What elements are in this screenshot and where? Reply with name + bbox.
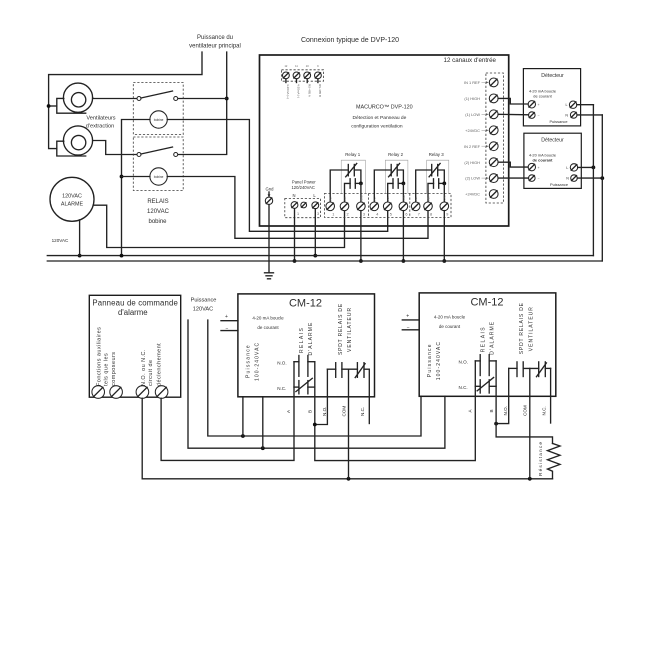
node: junction switch1 right (225, 97, 229, 101)
terminal 3 (357, 202, 366, 211)
wire: SPDT risers (508, 368, 510, 396)
terminal AP-3 (136, 386, 149, 399)
wire: 120VAC supply left leg to CM boxes power (neutral) (188, 320, 445, 448)
wire: strip IN3 to D1 - (498, 113, 528, 116)
svg-text:N.O.: N.O. (503, 406, 508, 415)
svg-text:Détection et Panneau de: Détection et Panneau de (353, 115, 407, 121)
svg-text:CM-12: CM-12 (470, 297, 503, 309)
svg-text:ALARME: ALARME (61, 202, 84, 208)
terminal 5 (383, 202, 392, 211)
wire: upper supply bus (47, 255, 593, 257)
terminal IN6 + label (2) HIGH (464, 158, 498, 167)
wire: lower supply bus (47, 260, 602, 262)
terminal 7 (411, 202, 420, 211)
wire: CM2 NC stub (550, 396, 552, 423)
svg-text:Connexion typique de DVP-120: Connexion typique de DVP-120 (301, 37, 399, 44)
wire: alarm bottom to upper bus (79, 220, 81, 256)
svg-text:bobine: bobine (148, 219, 167, 225)
svg-text:2: 2 (347, 213, 349, 217)
terminal AP-2 (110, 386, 123, 399)
wire: switch1 right to vertical (176, 98, 227, 100)
terminal TB1-1 (283, 72, 290, 79)
terminal D2 + (528, 163, 540, 170)
terminal 8 (424, 202, 433, 211)
wire: CM1 NO jog to B (315, 397, 328, 425)
terminal D2 N (566, 175, 577, 182)
terminal PP-mid (301, 202, 307, 208)
alarm control panel box (89, 295, 180, 397)
terminal D1 - (529, 112, 540, 119)
wire: fan2 to switch2 (93, 141, 137, 155)
svg-text:N.C.: N.C. (360, 407, 365, 416)
coil bobine2 (150, 168, 167, 185)
detector D2 box (524, 133, 581, 188)
svg-text:bobine: bobine (154, 118, 164, 122)
svg-text:N.O.: N.O. (277, 360, 286, 365)
terminal CM2 - lead (402, 329, 419, 331)
terminal AP-1 (92, 386, 105, 399)
svg-text:Relay 3: Relay 3 (429, 152, 444, 157)
wire: CM2 COM down to trigger loop (529, 396, 531, 479)
wire: right vertical N feed (601, 115, 603, 261)
terminal AP-4 (155, 386, 168, 399)
switch S1 (relay K1 contact) (137, 91, 178, 101)
relay group Relay 3 (411, 152, 448, 263)
node: N on lower bus (293, 259, 297, 263)
wire: CM1 COM down to trigger loop (348, 397, 350, 479)
wire: bobine1 right to relay2 NO terminal (167, 120, 387, 232)
node: bobine common on upper bus (120, 254, 124, 258)
svg-text:N: N (292, 193, 295, 198)
svg-text:4: 4 (376, 213, 378, 217)
node: CM2 NO-B junction (494, 422, 498, 426)
alarm relay NC contact (475, 385, 480, 387)
wire: alarm panel t3 along bottom (trigger loop) (142, 398, 552, 479)
svg-text:1: 1 (297, 212, 299, 216)
terminal 1 (326, 202, 335, 211)
node: junction bobine2 left (120, 175, 124, 179)
svg-text:RELAIS: RELAIS (147, 199, 168, 205)
terminal IN7 + label (2) LOW (465, 174, 498, 183)
svg-text:IN 1 REF: IN 1 REF (464, 80, 481, 85)
svg-text:COM: COM (443, 195, 447, 203)
wire: alarm side to relay1 NO terminal (93, 205, 344, 247)
svg-text:N.C.: N.C. (541, 406, 546, 415)
node: CM1 power hot tap (241, 434, 245, 438)
input terminals IN1..IN8 (464, 78, 498, 198)
svg-text:Résistance: Résistance (538, 441, 544, 476)
SECTION: buses (47, 105, 602, 261)
relay contact box K1 (dashed) (133, 83, 183, 135)
svg-text:L: L (566, 103, 568, 107)
node: CM2 COM on trigger loop (528, 477, 532, 481)
terminal D2 L (566, 164, 577, 171)
svg-text:+: + (406, 313, 409, 319)
svg-text:D'ALARME: D'ALARME (308, 322, 314, 356)
terminal block TB1 (top-left, dashed) (282, 70, 324, 81)
wire: relay3 COM to lower bus (443, 211, 445, 261)
svg-text:−: − (538, 177, 540, 181)
svg-text:120VAC: 120VAC (193, 307, 213, 313)
terminal D1 N (565, 112, 577, 119)
terminal IN1 + label IN 1 REF (464, 78, 498, 87)
svg-text:COM: COM (359, 195, 363, 203)
relay contact box K2 (dashed) (133, 137, 183, 191)
wire: D2 N to right vertical (577, 177, 602, 179)
terminal TB1-3 (304, 72, 311, 79)
svg-text:+24VDC: +24VDC (465, 192, 480, 197)
wire: riser A (293, 362, 295, 397)
svg-text:+: + (225, 314, 228, 320)
CM-12 module 1 (221, 294, 375, 417)
wire: D1 N to right vertical (577, 114, 602, 116)
svg-text:(2) HIGH: (2) HIGH (464, 160, 480, 165)
terminal CM1 - lead (221, 330, 238, 332)
wire: CM1 power hot drop (242, 397, 244, 436)
svg-text:+: + (538, 103, 540, 107)
svg-text:N.C.: N.C. (277, 386, 286, 391)
relay1 NO contact (345, 183, 351, 203)
svg-text:Panneau de commande: Panneau de commande (92, 299, 178, 308)
relay3 NC contact (416, 170, 432, 203)
relay2 NC contact (374, 170, 391, 203)
terminal block panel power (dashed) (285, 199, 321, 218)
svg-text:5: 5 (390, 213, 392, 217)
svg-text:4-20mA (-): 4-20mA (-) (297, 84, 301, 98)
wire: Gnd to earth (268, 205, 270, 273)
wire: relay2 COM to terminal (402, 183, 404, 203)
svg-text:8: 8 (430, 213, 432, 217)
svg-text:Détecteur: Détecteur (541, 138, 564, 144)
wire: riser B (314, 362, 316, 397)
node: junction fan feed (47, 104, 51, 108)
relay1 NC contact (330, 170, 348, 203)
svg-text:VENTILATEUR: VENTILATEUR (528, 306, 534, 351)
fan B1 (blower, Ventilateurs d'extraction) (57, 83, 93, 113)
svg-text:Ventilateurs: Ventilateurs (86, 116, 115, 122)
TB1 terminal leg stubs (285, 79, 287, 83)
terminal PP-L (312, 202, 319, 209)
coil bobine1 (150, 111, 167, 128)
svg-text:120VAC: 120VAC (147, 209, 170, 215)
node: D2 L junction (592, 166, 596, 170)
resistor Resistance (end of line) (548, 443, 561, 478)
svg-text:4-20 mA boucle: 4-20 mA boucle (434, 315, 466, 320)
svg-text:B: B (489, 409, 494, 412)
wire: alarm panel t4 to CM1 terminal A (161, 397, 294, 461)
terminal 2 (340, 202, 349, 211)
SECTION: DVP-120 main box (260, 37, 509, 279)
input terminal strip (dashed) (486, 73, 504, 203)
node: CM1 power neutral tap (261, 446, 265, 450)
svg-text:120/240VAC: 120/240VAC (291, 185, 314, 190)
wire: bobine2 right to relay3 NO terminal (167, 177, 428, 239)
svg-text:−: − (226, 326, 229, 332)
svg-text:d'extraction: d'extraction (86, 124, 114, 130)
wire: D1 L to right vertical (577, 104, 594, 106)
terminal D2 - (529, 175, 540, 182)
wire: strip IN2 to D1 + (498, 98, 528, 104)
wire: riser B (495, 361, 497, 396)
svg-text:COM: COM (523, 405, 528, 416)
terminal TB1-2 (293, 72, 300, 79)
wire: fan1 to switch1 (93, 97, 137, 100)
node: relay1 COM junction (359, 182, 363, 186)
svg-text:Puissance: Puissance (550, 119, 568, 124)
box CM-12 #1 (238, 294, 375, 397)
svg-text:D'ALARME: D'ALARME (490, 321, 496, 355)
svg-text:de courant: de courant (257, 325, 279, 330)
svg-text:RS-485 B: RS-485 B (318, 84, 322, 97)
node: relay2 COM junction (402, 182, 406, 186)
node: CM1 NO-B junction (313, 423, 317, 427)
box CM-12 #2 (419, 293, 556, 396)
wire: relay1 COM to terminal (360, 183, 362, 203)
svg-text:Relay 2: Relay 2 (388, 152, 403, 157)
svg-text:de courant: de courant (533, 94, 552, 99)
SPDT fan relay contacts (509, 367, 517, 369)
svg-text:COM: COM (402, 195, 406, 203)
svg-text:circuit de: circuit de (148, 359, 154, 386)
terminal IN4 + label +24VDC (465, 126, 498, 135)
svg-text:tels que les: tels que les (104, 353, 110, 386)
wire: L to upper bus (314, 209, 316, 256)
svg-text:3: 3 (317, 212, 319, 216)
svg-text:SPDT RELAIS DE: SPDT RELAIS DE (338, 303, 344, 355)
relay groups (326, 152, 449, 263)
wire: relay3 COM to terminal (443, 183, 445, 203)
relay group Relay 1 (326, 152, 365, 263)
terminal D1 L (566, 101, 577, 108)
alarm relay NC contact (294, 386, 299, 388)
detector D1 box (523, 69, 580, 126)
svg-text:d'alarme: d'alarme (118, 308, 148, 317)
terminal 6 (399, 202, 408, 211)
terminal IN8 + label +24VDC (465, 190, 498, 199)
terminal IN2 + label (1) HIGH (464, 94, 498, 103)
svg-text:MACURCO™ DVP-120: MACURCO™ DVP-120 (356, 105, 413, 111)
svg-text:+: + (538, 166, 540, 170)
wire: fan1 feed stub (49, 105, 57, 107)
wire: 120VAC supply right leg to CM boxes power (hot) (208, 320, 421, 436)
svg-text:ventilateur principal: ventilateur principal (189, 44, 241, 50)
relay group Relay 2 (370, 152, 408, 263)
wire: strip IN7 to D2 - (498, 177, 528, 179)
svg-text:120VAC: 120VAC (52, 238, 69, 243)
svg-text:Gnd: Gnd (266, 187, 275, 192)
svg-text:N.O. ou N.C.: N.O. ou N.C. (141, 349, 147, 386)
terminal 9 (440, 202, 449, 211)
svg-text:Panel Power: Panel Power (292, 180, 316, 185)
node: CM1 COM on trigger loop (347, 477, 351, 481)
switch S2 (relay K2 contact) (137, 147, 178, 157)
fan B2 (blower) (57, 126, 93, 156)
svg-text:CM-12: CM-12 (289, 298, 322, 310)
terminal D1 + (528, 101, 540, 108)
node: L on upper bus (313, 254, 317, 258)
terminal CM1 + lead (221, 320, 238, 322)
terminal 4 (370, 202, 379, 211)
wire: relay2 COM to lower bus (402, 211, 404, 261)
relay2 NO contact (388, 183, 393, 203)
svg-text:N.O.: N.O. (459, 360, 468, 365)
svg-text:(2) LOW: (2) LOW (465, 176, 480, 181)
svg-text:de courant: de courant (439, 324, 461, 329)
svg-text:composeurs: composeurs (111, 352, 117, 386)
node: relay3 COM junction (442, 182, 446, 186)
box U1 DVP-120 (260, 55, 509, 226)
SECTION: top-left fans and relays (47, 35, 428, 258)
terminal CM2 + lead (402, 319, 419, 321)
svg-text:Relay 1: Relay 1 (345, 152, 360, 157)
svg-text:Puissance: Puissance (246, 344, 252, 378)
svg-text:configuration ventilation: configuration ventilation (351, 124, 403, 130)
wire: SPDT risers (326, 369, 328, 397)
svg-text:6: 6 (405, 213, 407, 217)
node: junction alarm on upper bus (78, 254, 82, 258)
svg-text:VENTILATEUR: VENTILATEUR (347, 307, 353, 352)
svg-text:B: B (308, 410, 313, 413)
svg-text:7: 7 (418, 213, 420, 217)
svg-text:Puissance: Puissance (191, 298, 217, 304)
SECTION: lower panels (89, 293, 560, 481)
wire: right vertical L feed (592, 105, 594, 256)
wire: CM1 NC stub (368, 397, 370, 424)
wire: relay1 COM to lower bus (360, 211, 362, 261)
CM-12 module 2 (402, 293, 556, 416)
svg-text:3: 3 (363, 213, 365, 217)
svg-text:1: 1 (332, 213, 334, 217)
svg-text:−: − (538, 114, 540, 118)
svg-text:IN 2 REF: IN 2 REF (464, 144, 481, 149)
node: D2 N junction (600, 176, 604, 180)
svg-text:120VAC: 120VAC (62, 194, 82, 200)
svg-text:12 canaux d'entrée: 12 canaux d'entrée (444, 57, 497, 64)
svg-text:RELAIS: RELAIS (299, 327, 305, 353)
SECTION: detectors (498, 69, 604, 189)
svg-text:RS-485 A: RS-485 A (307, 84, 311, 97)
svg-text:N.O.: N.O. (322, 407, 327, 416)
alarm source 120VAC ALARME (50, 177, 94, 221)
svg-text:RELAIS: RELAIS (480, 326, 486, 352)
svg-text:Détecteur: Détecteur (541, 73, 564, 79)
wire: strip IN6 to D2 + (498, 162, 528, 167)
wire: bobine2 left stub (122, 176, 150, 178)
wire: riser A (474, 361, 476, 396)
terminal TB1-4 (315, 72, 322, 79)
SPDT fan relay contacts (327, 368, 335, 370)
svg-text:de courant: de courant (533, 158, 554, 163)
svg-text:−: − (407, 325, 410, 331)
wire: CM1 power neutral drop (262, 397, 264, 448)
svg-text:(1) LOW: (1) LOW (465, 112, 480, 117)
wire: CM2 NO jog to B (496, 396, 509, 423)
svg-text:N: N (566, 177, 569, 181)
svg-text:L: L (566, 166, 568, 170)
svg-text:COM: COM (341, 406, 346, 417)
wire: CM2 B to resistor top (496, 396, 552, 443)
svg-text:4-20mA (+): 4-20mA (+) (286, 84, 290, 99)
svg-text:Puissance: Puissance (550, 182, 568, 187)
svg-text:Puissance: Puissance (427, 343, 433, 377)
svg-text:9: 9 (446, 213, 448, 217)
terminal IN3 + label (1) LOW (465, 110, 498, 119)
ground symbol (265, 273, 274, 279)
svg-text:bobine: bobine (154, 175, 164, 179)
wire: D2 L to right vertical (578, 166, 594, 168)
terminal IN5 + label IN 2 REF (464, 142, 498, 151)
wire: CM1 B to CM2 A (315, 396, 476, 460)
alarm relay NO contact (294, 361, 299, 363)
svg-text:(1) HIGH: (1) HIGH (464, 96, 480, 101)
svg-text:N.C.: N.C. (459, 385, 468, 390)
svg-text:100-240VAC: 100-240VAC (255, 342, 261, 381)
svg-text:+24VDC: +24VDC (465, 128, 480, 133)
relay output strip (dashed) (324, 194, 451, 218)
wire: bobine1 left to common vertical (122, 120, 150, 256)
svg-text:Puissance du: Puissance du (197, 35, 233, 41)
svg-text:Fonctions auxiliaires: Fonctions auxiliaires (97, 327, 103, 386)
svg-text:déclenchement: déclenchement (156, 343, 162, 386)
svg-text:N: N (565, 113, 568, 117)
svg-text:SPDT RELAIS DE: SPDT RELAIS DE (519, 302, 525, 354)
svg-text:4-20 mA boucle: 4-20 mA boucle (252, 316, 284, 321)
wire: main fan power right drop to switches (176, 52, 227, 155)
terminal Gnd (265, 187, 274, 205)
svg-text:100-240VAC: 100-240VAC (436, 341, 442, 380)
terminal PP-N (291, 202, 298, 209)
wire: N to lower bus (294, 209, 296, 261)
alarm relay NO contact (475, 360, 480, 362)
relay3 NO contact (428, 183, 434, 203)
wire: main fan power left drop to fans (49, 52, 202, 149)
